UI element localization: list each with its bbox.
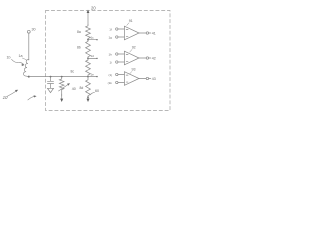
ground [48,88,54,92]
resistor R3 [86,58,91,76]
output wire and terminal [139,32,146,34]
input terminal lower [116,81,118,83]
svg-text:92: 92 [132,46,136,50]
node tap 2 [87,58,89,60]
svg-text:8b: 8b [77,46,81,50]
label 10 (figure reference) [3,95,8,100]
input terminal upper [116,53,118,55]
svg-text:1d: 1d [91,54,95,58]
terminal 30 (top left, with circle) [27,30,30,33]
svg-text:1a: 1a [19,54,23,58]
label 30 [32,28,36,32]
svg-text:93: 93 [132,68,136,72]
battery input wire with up arrow (top of ladder) [87,12,89,25]
svg-text:1f: 1f [109,27,112,31]
svg-text:1h: 1h [108,52,112,56]
node tap 1 [87,39,89,41]
svg-text:1g: 1g [108,35,112,39]
label 92 [132,46,136,50]
label 1a [19,54,23,58]
leader from 1b to coil [12,59,24,64]
svg-text:8c: 8c [71,70,75,74]
leader arrow from 10 to box [7,91,16,96]
label 93 [132,68,136,72]
svg-text:10: 10 [3,95,8,100]
svg-text:1i: 1i [109,60,112,64]
svg-text:41: 41 [152,32,156,36]
svg-text:40: 40 [72,87,76,91]
output label 42 [152,57,156,61]
svg-text:60: 60 [95,89,99,93]
output wire and terminal [139,78,146,80]
junction node at coil bottom [28,76,30,78]
down arrow terminal (ladder bottom) [87,97,89,99]
label 91 [129,19,133,23]
node at ladder bottom [87,96,89,98]
svg-text:42: 42 [152,57,156,61]
label R4 [80,86,84,90]
svg-text:(1j: (1j [108,73,112,77]
junction node at variable resistor top [61,76,63,78]
label R3 [71,70,75,74]
label 60 [95,89,99,93]
input labels [109,27,112,31]
capacitor C [50,77,52,81]
svg-text:20: 20 [91,6,96,11]
input terminal upper [116,28,118,30]
svg-text:43: 43 [152,77,156,81]
down arrow terminal (left) [61,94,63,99]
junction node at capacitor top [50,76,52,78]
resistor R4 [86,77,91,98]
svg-text:1c: 1c [91,36,95,40]
variable resistor 40 [59,77,64,96]
wiper arrow of variable resistor [59,84,69,91]
svg-text:8a: 8a [77,30,81,34]
node tap 3 (bus junction) [87,76,89,78]
leader from 1a to wire [22,58,27,60]
wire bus to ladder [29,76,88,78]
label 1b [7,56,11,60]
input terminal upper [116,73,118,75]
op-amp 93 [124,72,139,86]
op-amp 92 [124,51,139,65]
input terminal lower [116,36,118,38]
label R2 [77,46,81,50]
svg-text:1b: 1b [7,56,11,60]
resistor R2 [86,40,91,59]
svg-text:(1k: (1k [108,81,113,85]
output wire and terminal [139,57,146,59]
input terminal lower [116,61,118,63]
input labels [108,73,112,77]
svg-text:91: 91 [129,19,133,23]
resistor R1 (ladder top) [86,25,91,40]
label R1 [77,30,81,34]
output label 41 [152,32,156,36]
svg-text:30: 30 [32,28,36,32]
coil 1b [23,59,28,76]
op-amp 91 [124,26,139,40]
wire from terminal 30 down to coil [28,33,30,60]
output label 43 [152,77,156,81]
enclosure dashed box (monitoring circuit 20) [46,11,171,111]
svg-text:8d: 8d [80,86,84,90]
label 40 [72,87,76,91]
label 20 [91,6,96,11]
svg-text:1e: 1e [91,72,95,76]
input labels [108,52,112,56]
